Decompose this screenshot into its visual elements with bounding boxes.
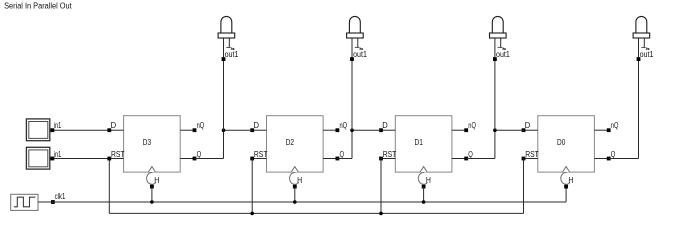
wire D2 Q output horizontal — [337, 158, 352, 160]
D3 clock pin dot — [150, 185, 154, 189]
D0 pin nQ dot — [607, 128, 611, 132]
svg-text:D: D — [111, 120, 117, 130]
svg-text:out1: out1 — [496, 49, 510, 59]
node out1 pin dot at LED L1 — [222, 57, 226, 61]
svg-text:H: H — [426, 175, 431, 185]
D2 pin RST dot — [250, 157, 254, 161]
D1 pin nQ stub — [452, 129, 466, 131]
pin dot in1 output — [51, 128, 55, 132]
junction dot clock bus at D2 — [293, 200, 297, 204]
D3 pin nQ stub — [180, 129, 194, 131]
LED L4 anode lead wire — [638, 38, 640, 159]
svg-text:out1: out1 — [640, 49, 654, 59]
D2 pin Q stub — [323, 158, 337, 160]
svg-text:in1: in1 — [54, 149, 62, 159]
RST bus wire — [109, 212, 523, 214]
LED L4 cathode lead — [643, 38, 645, 47]
D2 pin nQ stub — [323, 129, 337, 131]
junction dot RST bus at D1 — [379, 212, 383, 216]
wire D0 Q output horizontal — [609, 158, 639, 160]
clock bus riser to D0 clock pin — [565, 187, 567, 202]
D3 pin D stub — [109, 129, 123, 131]
clock source CLK1 (square-wave symbol) — [11, 194, 38, 210]
input source IN1 (button symbol) — [26, 119, 49, 141]
RST bus drop from D3 RST pin — [108, 159, 110, 214]
D0 clock pin dot — [564, 185, 568, 189]
D1 clock pin wire to clock bus — [423, 187, 425, 202]
input source IN2 (button symbol) — [26, 147, 49, 169]
D3 pin D dot — [107, 128, 111, 132]
svg-text:RST: RST — [111, 149, 125, 159]
D2 RST wire to RST bus — [251, 159, 253, 214]
D0 pin D stub — [524, 129, 538, 131]
D2 clock pin wire to clock bus — [294, 187, 296, 202]
junction dot RST bus at D2 — [250, 212, 254, 216]
D2 pin nQ dot — [336, 128, 340, 132]
svg-text:D: D — [254, 120, 260, 130]
RST bus riser to D0 RST pin — [523, 159, 525, 214]
D3 pin Q dot — [193, 157, 197, 161]
D3 clock hook circle — [147, 172, 156, 184]
LED L2 anode lead wire — [351, 38, 353, 130]
ground symbol at LED L1 — [226, 47, 234, 49]
ground symbol at LED L3 — [498, 47, 506, 49]
LED L3 anode lead wire — [494, 38, 496, 130]
svg-text:D: D — [382, 120, 388, 130]
svg-text:RST: RST — [525, 149, 539, 159]
svg-text:RST: RST — [254, 149, 268, 159]
D flip-flop D1 body — [395, 116, 452, 172]
D2 clock hook circle — [290, 172, 299, 184]
D1 pin RST stub — [381, 158, 395, 160]
wire riser Q to D-row at LED 2 — [351, 130, 353, 158]
ground symbol at LED L4 — [641, 47, 649, 49]
D1 pin RST dot — [379, 157, 383, 161]
D3 clock edge triangle — [148, 167, 155, 173]
svg-text:in1: in1 — [54, 120, 62, 130]
junction dot clock bus at D1 — [422, 200, 426, 204]
D1 pin Q stub — [452, 158, 466, 160]
svg-text:D: D — [525, 120, 531, 130]
svg-text:clk1: clk1 — [55, 191, 66, 201]
D0 clock edge triangle — [563, 167, 570, 173]
D3 pin Q stub — [180, 158, 194, 160]
wire riser Q to D-row at LED 1 — [223, 130, 225, 158]
svg-text:D2: D2 — [286, 137, 295, 147]
svg-text:Q: Q — [197, 149, 202, 159]
wire D3 Q output horizontal — [195, 158, 224, 160]
LED L4 base flange — [633, 33, 650, 38]
LED L2 cathode lead — [357, 38, 359, 47]
D flip-flop D2 body — [267, 116, 324, 172]
D0 clock hook circle — [561, 172, 570, 184]
svg-text:nQ: nQ — [611, 120, 619, 130]
wire riser Q to D-row at LED 3 — [494, 130, 496, 158]
D0 pin Q dot — [607, 157, 611, 161]
pin dot in1 output — [51, 157, 55, 161]
svg-text:D1: D1 — [415, 137, 424, 147]
wire to D2 D input — [224, 129, 253, 131]
svg-text:H: H — [297, 175, 302, 185]
LED L2 bulb dome — [349, 16, 360, 33]
D1 pin nQ dot — [464, 128, 468, 132]
D2 pin RST stub — [252, 158, 266, 160]
LED L4 bulb dome — [636, 16, 647, 33]
D1 clock pin dot — [422, 185, 426, 189]
junction dot LED1 lead / Q-D link — [222, 128, 226, 132]
LED L1 bulb dome — [221, 16, 232, 33]
D3 pin nQ dot — [193, 128, 197, 132]
wire to D0 D input — [495, 129, 524, 131]
D2 pin Q dot — [336, 157, 340, 161]
D1 pin D dot — [379, 128, 383, 132]
D0 pin nQ stub — [594, 129, 608, 131]
D3 pin RST dot — [107, 157, 111, 161]
junction dot LED3 lead / Q-D link — [493, 128, 497, 132]
node out1 pin dot at LED L3 — [493, 57, 497, 61]
LED L3 bulb dome — [492, 16, 503, 33]
svg-text:RST: RST — [383, 149, 397, 159]
svg-text:H: H — [568, 175, 573, 185]
clk1 pin dot — [51, 200, 55, 204]
svg-text:nQ: nQ — [340, 120, 348, 130]
svg-text:Q: Q — [611, 149, 616, 159]
LED L1 base flange — [218, 33, 235, 38]
node out1 pin dot at LED L4 — [637, 57, 641, 61]
junction dot clock bus at D3 — [150, 200, 154, 204]
wire D1 Q output horizontal — [466, 158, 495, 160]
ground symbol at LED L2 — [355, 47, 363, 49]
D0 pin D dot — [522, 128, 526, 132]
svg-text:out1: out1 — [225, 49, 239, 59]
svg-text:nQ: nQ — [468, 120, 476, 130]
D1 clock edge triangle — [420, 167, 427, 173]
D2 pin D dot — [250, 128, 254, 132]
LED L2 base flange — [347, 33, 364, 38]
LED L1 cathode lead — [228, 38, 230, 47]
D0 RST wire to RST bus — [523, 159, 525, 214]
D1 pin D stub — [381, 129, 395, 131]
D0 pin RST stub — [524, 158, 538, 160]
D flip-flop D0 body — [538, 116, 595, 172]
D2 pin D stub — [252, 129, 266, 131]
D0 pin Q stub — [594, 158, 608, 160]
D1 pin Q dot — [464, 157, 468, 161]
wire to D1 D input — [352, 129, 381, 131]
clock bus wire (clk1 to all flip-flop clock pins) — [38, 201, 566, 203]
D0 pin RST dot — [522, 157, 526, 161]
D1 RST wire to RST bus — [380, 159, 382, 214]
wire from in1 source to flip-flop D3 RST pin — [50, 158, 110, 160]
svg-text:Q: Q — [340, 149, 345, 159]
svg-text:D0: D0 — [557, 137, 566, 147]
D2 clock edge triangle — [291, 167, 298, 173]
svg-text:Q: Q — [468, 149, 473, 159]
wire from in1 source to flip-flop D3 D pin — [50, 129, 110, 131]
svg-text:out1: out1 — [353, 49, 367, 59]
LED L3 cathode lead — [500, 38, 502, 47]
D3 pin RST stub — [109, 158, 123, 160]
svg-text:Serial In Parallel Out: Serial In Parallel Out — [4, 2, 72, 11]
LED L3 base flange — [490, 33, 507, 38]
D1 clock hook circle — [418, 172, 427, 184]
junction dot LED2 lead / Q-D link — [350, 128, 354, 132]
D2 clock pin dot — [293, 185, 297, 189]
D flip-flop D3 body — [124, 116, 181, 172]
node out1 pin dot at LED L2 — [350, 57, 354, 61]
D3 clock pin wire to clock bus — [151, 187, 153, 202]
svg-text:nQ: nQ — [197, 120, 205, 130]
LED L1 anode lead wire — [223, 38, 225, 130]
svg-text:D3: D3 — [143, 137, 152, 147]
svg-text:H: H — [154, 175, 159, 185]
